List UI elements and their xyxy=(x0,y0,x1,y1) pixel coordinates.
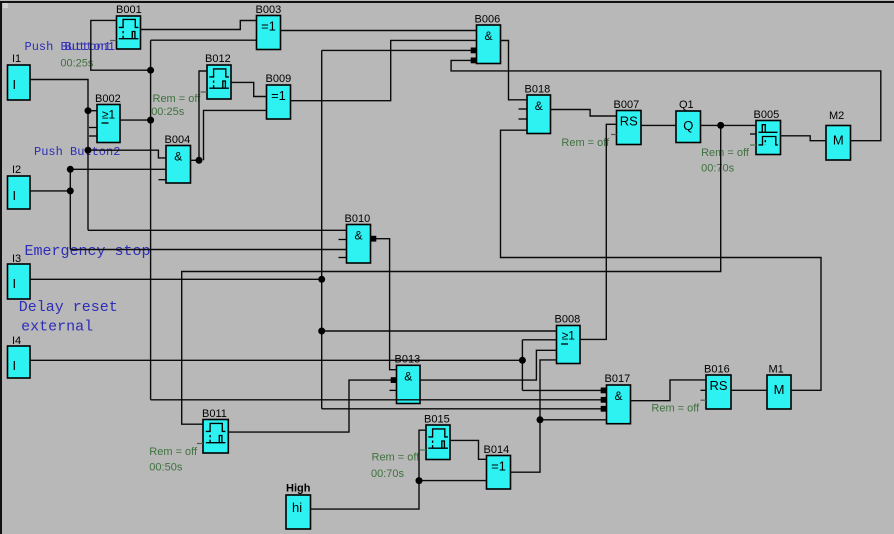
svg-text:Delay reset: Delay reset xyxy=(19,299,118,316)
svg-text:I: I xyxy=(13,276,17,291)
svg-text:B006: B006 xyxy=(475,14,501,26)
svg-text:&: & xyxy=(354,229,362,243)
svg-text:B016: B016 xyxy=(704,364,730,376)
value label Rem = off / 00:70s of B015 xyxy=(371,452,420,481)
svg-text:&: & xyxy=(174,150,182,164)
svg-text:B017: B017 xyxy=(605,373,631,385)
input block I2 xyxy=(8,164,31,209)
flag block M1 xyxy=(767,364,791,410)
and block B018 xyxy=(519,84,551,134)
svg-text:&: & xyxy=(535,99,543,113)
wire net B004 output to B012.in1 and B009.in2 xyxy=(191,71,267,160)
svg-text:Button1: Button1 xyxy=(65,40,115,54)
input block I1 xyxy=(8,53,31,100)
junction I4 line to B008 B017 branch xyxy=(519,357,526,364)
node label Emergency stop xyxy=(25,243,151,260)
wire net Q1 output to B005.in1 and B011.in1 xyxy=(182,125,756,424)
timer block B015 xyxy=(420,414,450,460)
svg-text:Rem = off: Rem = off xyxy=(372,452,421,464)
svg-text:I: I xyxy=(13,188,17,203)
junction B002 output xyxy=(147,117,154,124)
and block B004 xyxy=(159,134,191,183)
svg-text:RS: RS xyxy=(709,378,727,393)
wire B015 output to B014.in1 xyxy=(450,440,487,459)
wire B010 output to B013.in1 xyxy=(376,239,397,370)
negated output marker B010 xyxy=(371,236,377,242)
wire B016 output to M1 input xyxy=(731,389,767,391)
svg-text:B002: B002 xyxy=(95,93,121,105)
svg-text:=1: =1 xyxy=(271,88,286,103)
wire B008 output to B007.R xyxy=(580,124,617,339)
wire B017 output to B016.S xyxy=(631,380,707,401)
rs latch block B016 xyxy=(701,364,732,410)
svg-text:B009: B009 xyxy=(266,73,292,85)
wire net B014 output to B017.in4 and B008.in4 xyxy=(511,360,607,472)
svg-text:B005: B005 xyxy=(754,109,780,121)
junction B004 output xyxy=(196,157,203,164)
negated input marker B013.in2 xyxy=(391,377,397,383)
input block I3 xyxy=(8,253,31,299)
wire net M2 feedback to B006.in4 xyxy=(451,60,881,140)
and block B017 xyxy=(605,373,631,424)
svg-text:B010: B010 xyxy=(345,213,371,225)
junction Q1 output feedback xyxy=(717,122,724,129)
svg-text:Rem = off: Rem = off xyxy=(561,137,610,149)
timer block B001 xyxy=(110,4,142,49)
svg-text:B008: B008 xyxy=(555,314,581,326)
svg-text:M: M xyxy=(833,133,844,148)
nand block B010 xyxy=(339,213,371,263)
svg-text:M2: M2 xyxy=(829,110,844,122)
timer block B011 xyxy=(197,408,228,453)
junction I2 line to B004.in2 xyxy=(67,166,74,173)
svg-text:I2: I2 xyxy=(12,164,21,176)
svg-text:RS: RS xyxy=(620,114,638,129)
and block B006 xyxy=(475,14,501,64)
canvas corner marker xyxy=(3,3,8,8)
svg-text:00:25s: 00:25s xyxy=(60,58,94,70)
svg-text:Rem = off: Rem = off xyxy=(149,446,198,458)
svg-text:00:70s: 00:70s xyxy=(701,163,735,175)
svg-text:external: external xyxy=(21,319,93,336)
svg-text:B003: B003 xyxy=(256,4,282,16)
wire net I1 to B002.in1 B004.in1 B010.in1 xyxy=(30,80,347,231)
svg-text:B013: B013 xyxy=(395,354,421,366)
svg-text:Q: Q xyxy=(683,118,693,133)
rs latch block B007 xyxy=(611,99,641,145)
junction I3 line to vertical bus xyxy=(318,276,325,283)
svg-text:B018: B018 xyxy=(525,84,551,96)
svg-text:B011: B011 xyxy=(202,408,227,420)
negated input marker B017.in2 xyxy=(601,397,607,403)
svg-text:Rem = off: Rem = off xyxy=(651,403,700,415)
svg-text:Rem = off: Rem = off xyxy=(153,93,202,105)
svg-text:00:50s: 00:50s xyxy=(149,462,183,474)
svg-text:M1: M1 xyxy=(769,364,784,376)
svg-text:B014: B014 xyxy=(484,444,510,456)
output block Q1 xyxy=(676,99,701,143)
junction B002 output column at B001 loop xyxy=(147,67,154,74)
wire net M1 feedback to B018.in4 xyxy=(501,130,822,390)
junction B014 output to B017.in4 xyxy=(537,416,544,423)
flag block M2 xyxy=(826,110,851,160)
wire B013 output to B008.in3 xyxy=(420,350,557,380)
svg-text:B012: B012 xyxy=(205,53,231,65)
node label Delay reset external xyxy=(19,299,118,336)
or block B002 xyxy=(89,93,121,143)
junction I1 line to B004.in1 xyxy=(85,147,92,154)
svg-text:B015: B015 xyxy=(424,414,450,426)
svg-text:&: & xyxy=(484,29,492,43)
wire net I4 to B008.in2 and B017.in1 xyxy=(30,340,607,391)
input block I4 xyxy=(8,335,31,378)
value label 00:25s of B001 xyxy=(60,58,94,70)
svg-text:&: & xyxy=(614,389,622,403)
border frame top edge xyxy=(0,1,894,3)
svg-text:&: & xyxy=(404,369,412,383)
value label Rem = off of B007 xyxy=(561,137,610,149)
svg-text:I: I xyxy=(13,77,17,92)
svg-text:Rem = off: Rem = off xyxy=(701,147,750,159)
wire B005 output to M2 input xyxy=(781,136,827,141)
svg-text:I: I xyxy=(13,358,17,373)
svg-text:00:70s: 00:70s xyxy=(371,468,405,480)
wire B011 output to B013.in2 xyxy=(228,380,391,432)
node label Push Button1 xyxy=(25,40,115,54)
svg-text:=1: =1 xyxy=(491,459,506,474)
wire net I2 to B004.in2 and B010.in3 emergency stop line xyxy=(30,169,347,249)
value label Rem = off / 00:70s of B005 xyxy=(701,147,750,175)
svg-text:Emergency stop: Emergency stop xyxy=(25,243,151,260)
junction hi net to B014.in2 xyxy=(416,477,423,484)
value label Rem = off / 00:50s of B011 xyxy=(149,446,198,474)
svg-text:=1: =1 xyxy=(261,19,276,34)
timer block B005 xyxy=(750,109,781,155)
wire B012 output to B009.in1 xyxy=(231,82,267,96)
svg-text:hi: hi xyxy=(292,500,302,515)
wire B003 output to B006.in1 xyxy=(281,30,477,32)
junction I2 output xyxy=(67,187,74,194)
svg-text:Push Button2: Push Button2 xyxy=(34,145,120,159)
svg-text:B007: B007 xyxy=(614,99,640,111)
wire net I3 to B006.in3 B008.in1 B017.in3 xyxy=(30,50,607,408)
wire B001 output to B003.in1 xyxy=(141,21,257,30)
or block B008 xyxy=(555,314,581,364)
xor block B009 xyxy=(266,73,292,119)
wire B006 output to B018.in1 xyxy=(501,41,528,100)
timer block B012 xyxy=(201,53,232,99)
negated input marker B017.in1 xyxy=(601,388,607,394)
svg-text:I1: I1 xyxy=(12,53,21,65)
value label Rem = off / 00:25s of B012 xyxy=(151,93,201,118)
svg-text:≥1: ≥1 xyxy=(562,329,576,343)
node label Push Button2 xyxy=(34,145,120,159)
border frame left edge xyxy=(0,1,2,534)
xor block B003 xyxy=(256,4,282,50)
constant high block hi xyxy=(286,483,311,530)
wire net hi constant to B015.in1 and B014.in2 xyxy=(311,430,487,509)
svg-text:M: M xyxy=(774,382,785,397)
svg-text:High: High xyxy=(286,483,311,495)
wire net B002 output to B001.in1 B003.in2 B017.in2 xyxy=(91,20,607,399)
svg-text:B004: B004 xyxy=(165,134,191,146)
junction vertical bus to B008.in1 xyxy=(318,328,325,335)
xor block B014 xyxy=(484,444,511,489)
svg-text:Q1: Q1 xyxy=(679,99,694,111)
negated input marker B006.in3 xyxy=(471,48,477,54)
negated input marker B006.in4 xyxy=(471,58,477,64)
wire B007 output to Q1 input xyxy=(641,124,676,126)
svg-text:00:25s: 00:25s xyxy=(151,106,185,118)
value label Rem = off of B016 xyxy=(651,403,700,415)
negated input marker B017.in3 xyxy=(601,406,607,412)
junction I1 line to B002.in1 xyxy=(85,107,92,114)
svg-text:≥1: ≥1 xyxy=(102,108,116,122)
wire B009 output to B006.in2 xyxy=(291,40,477,100)
wire B018 output to B007.S xyxy=(551,110,617,117)
and block B013 xyxy=(390,354,421,404)
svg-text:B001: B001 xyxy=(116,4,142,16)
